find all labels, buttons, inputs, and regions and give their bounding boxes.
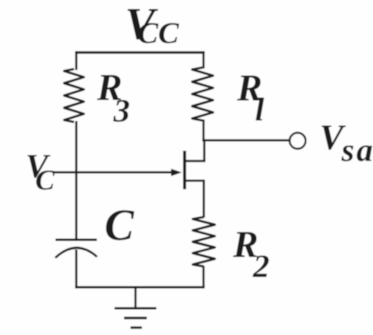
svg-text:CC: CC (138, 15, 180, 50)
wire ground stub (134, 287, 136, 308)
transistor Q1 JFET channel bar (183, 151, 186, 189)
wire R2 to bottom rail (202, 266, 204, 288)
wire JFET drain vertical (203, 140, 205, 161)
svg-text:l: l (255, 93, 265, 129)
transistor Q1 gate arrowhead (171, 169, 182, 176)
wire JFET drain lead (185, 160, 206, 162)
wire left branch top (VCC rail to R3) (75, 51, 77, 70)
svg-text:2: 2 (252, 249, 270, 285)
node VCC top rail (75, 51, 204, 54)
capacitor C top plate (56, 239, 97, 241)
resistor R3 (64, 69, 84, 122)
capacitor C curved bottom plate (55, 248, 97, 258)
resistor R1 (192, 68, 213, 121)
svg-text:sa: sa (341, 133, 373, 169)
svg-text:C: C (35, 165, 55, 197)
wire output line to terminal (202, 139, 289, 141)
terminal Vsa (290, 133, 306, 149)
wire left branch middle (R3 to capacitor) (75, 121, 77, 240)
svg-text:C: C (105, 200, 135, 249)
wire R1 to output node (202, 120, 204, 142)
wire bottom rail (75, 286, 204, 288)
wire JFET source vertical (to R2) (203, 181, 205, 218)
wire right branch top (VCC rail to R1) (202, 51, 204, 68)
wire left branch bottom (capacitor to bottom rail) (75, 250, 77, 289)
resistor R2 (193, 217, 215, 267)
svg-text:3: 3 (113, 94, 131, 130)
wire JFET source lead (185, 180, 205, 182)
node Vc / wire gate (Vc stub to JFET gate) (53, 171, 175, 173)
ground (115, 307, 157, 309)
